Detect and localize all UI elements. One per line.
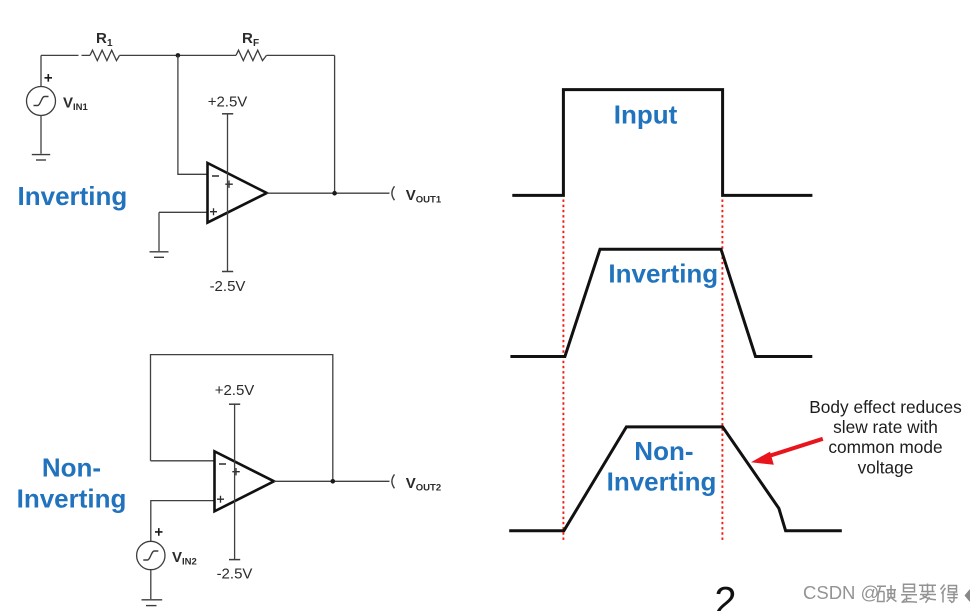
label VOUT2 — [406, 475, 441, 494]
wire positive supply pin U1 — [227, 114, 229, 166]
wire feedback right vertical — [334, 55, 336, 193]
watermark glyph 得 — [941, 585, 959, 603]
wire R1 to RF — [120, 54, 237, 56]
label VOUT1 — [406, 187, 442, 206]
red dashed timing line left — [562, 200, 564, 542]
wire non-inverting input U2 from VIN2 — [151, 501, 215, 541]
wire U1 output — [267, 192, 390, 194]
U2 positive supply mark — [232, 468, 240, 475]
svg-text:-2.5V: -2.5V — [210, 278, 246, 295]
annotation text body effect — [809, 397, 962, 478]
svg-text:+2.5V: +2.5V — [208, 94, 248, 111]
label R1 — [96, 30, 113, 49]
U1 inverting input mark — [212, 175, 219, 177]
svg-text:Inverting: Inverting — [18, 181, 128, 211]
svg-text:voltage: voltage — [858, 457, 914, 477]
-2.5V supply terminal bar U1 — [222, 271, 233, 273]
U2 non-inverting input mark — [217, 496, 224, 503]
U1 positive supply mark — [225, 181, 233, 188]
svg-text:common mode: common mode — [828, 437, 942, 457]
wire to inverting input U2 — [151, 460, 215, 462]
svg-text:V: V — [406, 475, 416, 492]
waveform Non-Inverting trace — [509, 427, 842, 531]
svg-text:Input: Input — [614, 100, 678, 130]
svg-text:+2.5V: +2.5V — [215, 382, 255, 399]
svg-text:1: 1 — [107, 38, 113, 49]
-2.5V supply terminal bar U2 — [229, 559, 240, 561]
voltage source VIN2 — [137, 541, 165, 569]
node VOUT1 — [332, 191, 337, 196]
resistor RF — [236, 50, 267, 60]
watermark glyph 硬 — [877, 585, 897, 602]
watermark glyph 是 — [901, 584, 917, 602]
svg-text:Body effect reduces: Body effect reduces — [809, 397, 962, 417]
wire VIN1 lower lead — [40, 116, 42, 154]
svg-text:Non-: Non- — [42, 453, 101, 483]
svg-text:F: F — [253, 38, 259, 49]
resistor R1 — [90, 50, 120, 60]
watermark logo dot — [965, 590, 970, 602]
op-amp U2 — [215, 451, 275, 511]
waveform Input trace — [512, 90, 812, 196]
label RF — [242, 30, 259, 49]
svg-text:V: V — [406, 187, 416, 204]
node junction at R1/RF/inverting input — [176, 53, 181, 58]
ground (VIN2) — [142, 600, 163, 606]
svg-text:IN1: IN1 — [73, 102, 89, 113]
+2.5V supply terminal bar U1 — [222, 113, 233, 115]
svg-text:IN2: IN2 — [182, 557, 197, 568]
plus polarity mark VIN1 — [45, 74, 53, 82]
watermark glyph 要 — [919, 584, 936, 603]
svg-text:-2.5V: -2.5V — [217, 566, 253, 583]
svg-text:slew rate with: slew rate with — [833, 417, 938, 437]
label VIN2 — [172, 549, 197, 568]
label Non-Inverting (waveform) — [607, 436, 717, 497]
node VOUT2 — [331, 479, 336, 484]
svg-text:R: R — [242, 30, 253, 47]
terminal VOUT2 — [392, 474, 395, 488]
svg-text:2: 2 — [714, 579, 736, 611]
wire VIN1 up lead — [40, 55, 42, 86]
svg-text:Inverting: Inverting — [608, 259, 718, 289]
wire positive supply pin U2 — [234, 404, 236, 559]
wire VIN2 lower lead — [150, 570, 152, 599]
svg-text:V: V — [63, 95, 73, 112]
wire U2 output — [274, 480, 390, 482]
wire junction down to inverting input — [178, 55, 208, 174]
wire non-inverting input from ground — [159, 211, 208, 213]
U2 inverting input mark — [219, 463, 226, 465]
voltage source VIN1 — [27, 87, 56, 116]
svg-text:OUT2: OUT2 — [416, 482, 441, 493]
svg-text:Inverting: Inverting — [607, 467, 717, 497]
svg-text:Inverting: Inverting — [17, 484, 127, 514]
svg-text:V: V — [172, 549, 182, 566]
svg-text:CSDN @: CSDN @ — [803, 582, 879, 603]
svg-text:OUT1: OUT1 — [416, 194, 442, 205]
ground (VIN1) — [32, 155, 50, 160]
wire ground stem — [158, 212, 160, 251]
label VIN1 — [63, 95, 89, 114]
svg-text:Non-: Non- — [634, 436, 693, 466]
U1 non-inverting input mark — [210, 208, 217, 215]
ground (U1 non-inverting input) — [150, 252, 169, 257]
svg-text:R: R — [96, 30, 107, 47]
wire RF to right vertical — [267, 54, 335, 56]
op-amp U1 — [208, 163, 267, 223]
annotation arrow (body effect) — [751, 439, 823, 465]
+2.5V supply terminal bar U2 — [229, 403, 240, 405]
red dashed timing line right — [721, 200, 723, 542]
wire supply through triangle — [227, 166, 229, 272]
plus polarity mark VIN2 — [155, 528, 163, 536]
terminal VOUT1 — [392, 186, 395, 200]
label Non-Inverting (circuit 2) — [17, 453, 127, 514]
wire top rail VIN1 to R1 — [41, 54, 90, 56]
wire feedback top rail (circuit 2) — [151, 355, 333, 482]
waveform Inverting trace — [510, 249, 812, 356]
